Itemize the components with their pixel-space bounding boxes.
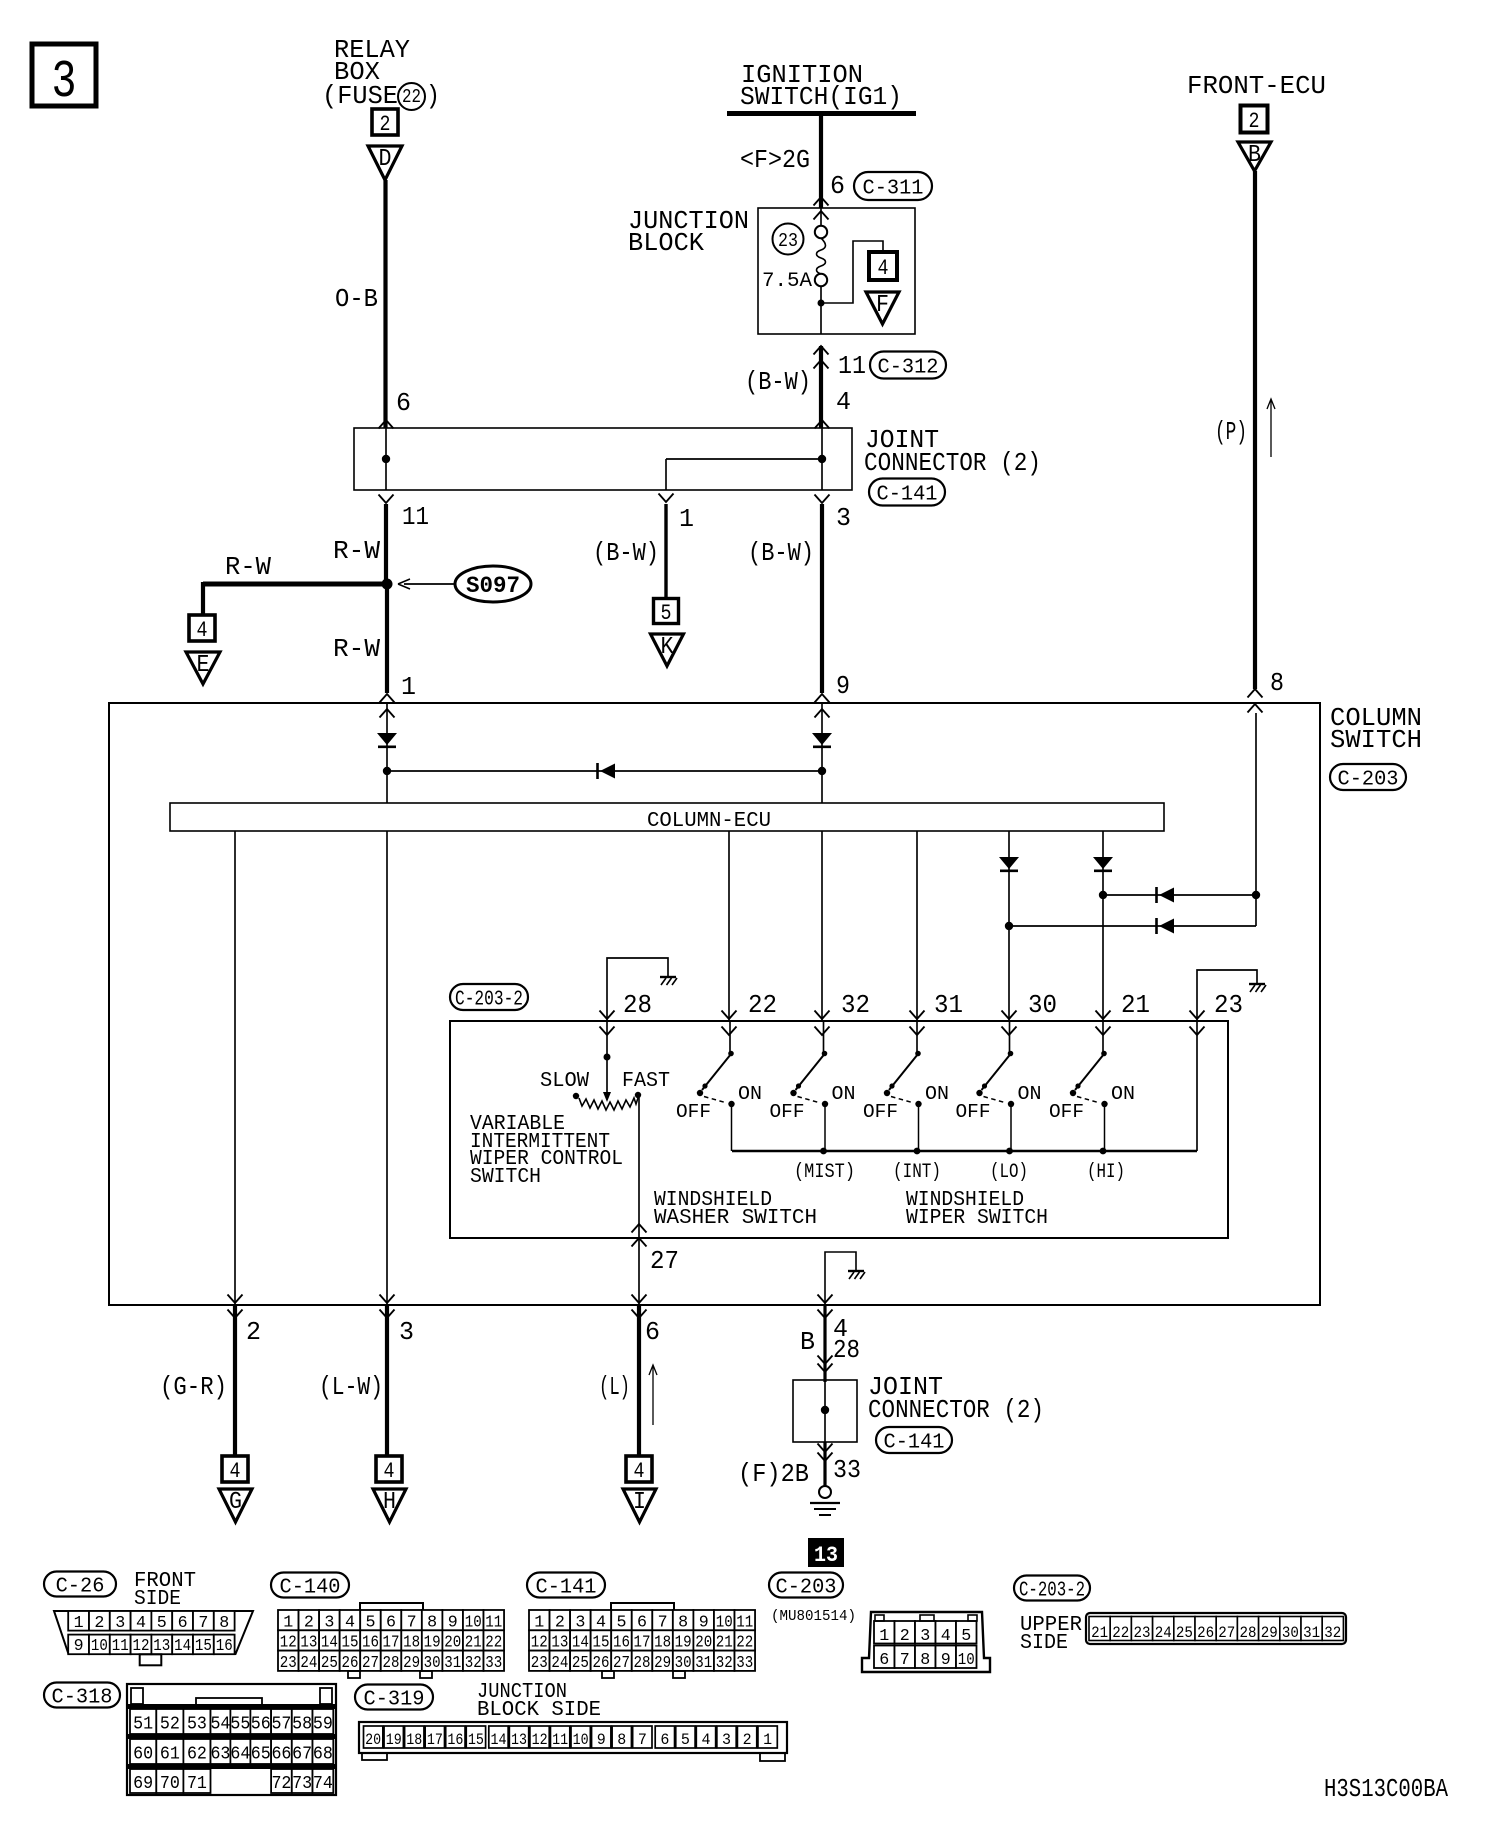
svg-text:16: 16: [216, 1637, 233, 1656]
svg-text:54: 54: [210, 1715, 230, 1735]
svg-text:33: 33: [736, 1654, 753, 1673]
svg-text:(F)2B: (F)2B: [738, 1460, 809, 1489]
svg-text:69: 69: [133, 1774, 153, 1794]
svg-text:53: 53: [187, 1715, 207, 1735]
svg-text:31: 31: [695, 1654, 712, 1673]
svg-text:G: G: [229, 1489, 242, 1516]
svg-text:22: 22: [402, 86, 421, 108]
svg-text:(G-R): (G-R): [160, 1373, 227, 1402]
svg-text:5: 5: [157, 1614, 167, 1633]
svg-text:4: 4: [197, 618, 208, 643]
svg-text:(FUSE: (FUSE: [322, 82, 398, 111]
svg-text:3: 3: [115, 1614, 125, 1633]
svg-text:2: 2: [246, 1318, 261, 1347]
svg-text:30: 30: [675, 1654, 692, 1673]
svg-text:60: 60: [133, 1745, 153, 1765]
svg-text:C-141: C-141: [877, 483, 938, 507]
svg-text:BLOCK SIDE: BLOCK SIDE: [477, 1699, 601, 1722]
svg-text:11: 11: [552, 1731, 568, 1749]
svg-text:R-W: R-W: [333, 537, 381, 566]
svg-text:COLUMN-ECU: COLUMN-ECU: [647, 809, 771, 833]
svg-text:<F>2G: <F>2G: [740, 146, 810, 175]
svg-text:57: 57: [271, 1715, 291, 1735]
svg-text:C-311: C-311: [863, 177, 924, 201]
svg-text:O-B: O-B: [335, 285, 378, 314]
svg-text:32: 32: [716, 1654, 733, 1673]
svg-text:WASHER SWITCH: WASHER SWITCH: [654, 1207, 817, 1230]
svg-text:33: 33: [485, 1654, 502, 1673]
svg-text:10: 10: [573, 1731, 589, 1749]
svg-text:SWITCH: SWITCH: [470, 1166, 541, 1189]
svg-text:1: 1: [763, 1731, 772, 1749]
svg-text:31: 31: [444, 1654, 461, 1673]
svg-text:C-319: C-319: [364, 1688, 425, 1712]
svg-text:25: 25: [1176, 1624, 1193, 1642]
svg-text:25: 25: [572, 1654, 589, 1673]
svg-text:3: 3: [836, 504, 851, 533]
svg-text:OFF: OFF: [863, 1101, 898, 1123]
svg-text:28: 28: [1240, 1624, 1257, 1642]
svg-text:16: 16: [447, 1731, 463, 1749]
svg-text:3: 3: [52, 52, 77, 112]
svg-text:59: 59: [313, 1715, 333, 1735]
svg-text:ON: ON: [832, 1083, 856, 1105]
svg-text:6: 6: [178, 1614, 188, 1633]
svg-text:28: 28: [383, 1654, 400, 1673]
svg-text:8: 8: [219, 1614, 229, 1633]
svg-text:2: 2: [94, 1614, 104, 1633]
svg-text:1: 1: [401, 673, 416, 702]
svg-text:30: 30: [1028, 991, 1057, 1020]
svg-text:14: 14: [490, 1731, 506, 1749]
svg-text:(LO): (LO): [990, 1161, 1028, 1184]
svg-text:(B-W): (B-W): [593, 539, 659, 568]
svg-text:5: 5: [961, 1627, 971, 1646]
svg-text:5: 5: [661, 601, 672, 626]
svg-text:29: 29: [1261, 1624, 1278, 1642]
svg-text:C-203-2: C-203-2: [1019, 1579, 1085, 1603]
svg-text:SIDE: SIDE: [1020, 1632, 1068, 1655]
svg-text:ON: ON: [1111, 1083, 1135, 1105]
svg-text:C-203: C-203: [776, 1576, 837, 1600]
svg-text:I: I: [633, 1489, 646, 1516]
svg-text:(L-W): (L-W): [319, 1373, 383, 1402]
svg-text:73: 73: [292, 1774, 312, 1794]
svg-text:55: 55: [230, 1715, 250, 1735]
svg-text:K: K: [661, 634, 675, 661]
svg-text:ON: ON: [925, 1083, 949, 1105]
svg-text:10: 10: [91, 1637, 108, 1656]
svg-text:28: 28: [623, 991, 652, 1020]
svg-text:51: 51: [133, 1715, 153, 1735]
svg-text:20: 20: [365, 1731, 381, 1749]
svg-text:24: 24: [300, 1654, 317, 1673]
svg-text:58: 58: [292, 1715, 312, 1735]
svg-text:32: 32: [841, 991, 870, 1020]
svg-text:26: 26: [1197, 1624, 1214, 1642]
svg-text:B: B: [800, 1328, 815, 1357]
svg-text:25: 25: [321, 1654, 338, 1673]
svg-text:ON: ON: [1018, 1083, 1042, 1105]
svg-text:WIPER SWITCH: WIPER SWITCH: [906, 1207, 1048, 1230]
svg-text:6: 6: [645, 1318, 660, 1347]
svg-text:30: 30: [424, 1654, 441, 1673]
svg-text:4: 4: [836, 388, 851, 417]
svg-text:13: 13: [153, 1637, 170, 1656]
svg-text:4: 4: [701, 1731, 710, 1749]
svg-text:4: 4: [384, 1459, 395, 1484]
svg-text:(MIST): (MIST): [794, 1161, 855, 1184]
svg-text:65: 65: [251, 1745, 271, 1765]
svg-text:(B-W): (B-W): [748, 539, 814, 568]
svg-text:61: 61: [160, 1745, 180, 1765]
svg-text:17: 17: [427, 1731, 443, 1749]
svg-text:10: 10: [958, 1651, 975, 1670]
svg-text:18: 18: [406, 1731, 422, 1749]
svg-text:): ): [426, 82, 440, 111]
svg-text:4: 4: [230, 1459, 241, 1484]
svg-text:21: 21: [1121, 991, 1150, 1020]
svg-text:14: 14: [174, 1637, 191, 1656]
svg-text:H3S13C00BA: H3S13C00BA: [1324, 1775, 1449, 1804]
svg-text:4: 4: [878, 256, 889, 281]
svg-text:9: 9: [74, 1637, 84, 1656]
svg-text:2: 2: [1249, 109, 1260, 134]
svg-text:4: 4: [941, 1627, 951, 1646]
svg-text:C-141: C-141: [536, 1576, 597, 1600]
svg-text:(MU801514): (MU801514): [771, 1608, 856, 1625]
svg-text:13: 13: [511, 1731, 527, 1749]
svg-text:52: 52: [160, 1715, 180, 1735]
svg-text:7.5A: 7.5A: [762, 270, 812, 293]
svg-text:27: 27: [613, 1654, 630, 1673]
svg-text:6: 6: [396, 389, 411, 418]
svg-text:3: 3: [399, 1318, 414, 1347]
svg-text:29: 29: [654, 1654, 671, 1673]
svg-text:11: 11: [402, 503, 429, 532]
svg-text:C-26: C-26: [56, 1575, 105, 1599]
svg-text:23: 23: [1134, 1624, 1151, 1642]
svg-text:2: 2: [743, 1731, 752, 1749]
svg-text:8: 8: [920, 1651, 930, 1670]
svg-text:C-140: C-140: [280, 1576, 341, 1600]
svg-text:OFF: OFF: [770, 1101, 805, 1123]
svg-text:3: 3: [920, 1627, 930, 1646]
svg-text:D: D: [379, 146, 392, 173]
svg-text:1: 1: [879, 1627, 889, 1646]
svg-text:CONNECTOR (2): CONNECTOR (2): [864, 449, 1041, 478]
svg-text:1: 1: [74, 1614, 84, 1633]
svg-text:OFF: OFF: [956, 1101, 991, 1123]
svg-text:62: 62: [187, 1745, 207, 1765]
svg-text:R-W: R-W: [225, 553, 272, 582]
svg-text:12: 12: [532, 1731, 548, 1749]
svg-text:67: 67: [292, 1745, 312, 1765]
svg-text:(L): (L): [599, 1373, 630, 1402]
svg-text:H: H: [383, 1489, 396, 1516]
svg-text:6: 6: [879, 1651, 889, 1670]
svg-text:24: 24: [1155, 1624, 1172, 1642]
svg-text:12: 12: [133, 1637, 150, 1656]
svg-text:S097: S097: [466, 573, 520, 599]
svg-text:(P): (P): [1215, 418, 1247, 447]
svg-text:21: 21: [1091, 1624, 1108, 1642]
svg-text:9: 9: [836, 672, 850, 701]
svg-text:23: 23: [1214, 991, 1243, 1020]
svg-text:SWITCH: SWITCH: [1330, 726, 1422, 755]
svg-text:71: 71: [187, 1774, 207, 1794]
svg-text:E: E: [197, 652, 210, 679]
svg-text:19: 19: [386, 1731, 402, 1749]
svg-text:15: 15: [468, 1731, 484, 1749]
svg-text:68: 68: [313, 1745, 333, 1765]
svg-text:ON: ON: [738, 1083, 762, 1105]
svg-text:23: 23: [531, 1654, 548, 1673]
svg-text:4: 4: [136, 1614, 146, 1633]
svg-text:SLOW: SLOW: [540, 1070, 589, 1093]
svg-text:1: 1: [679, 505, 694, 534]
svg-text:32: 32: [465, 1654, 482, 1673]
svg-text:7: 7: [900, 1651, 910, 1670]
svg-text:30: 30: [1282, 1624, 1299, 1642]
svg-text:56: 56: [251, 1715, 271, 1735]
svg-text:(HI): (HI): [1087, 1161, 1125, 1184]
svg-text:C-141: C-141: [884, 1431, 945, 1455]
svg-text:22: 22: [1112, 1624, 1129, 1642]
svg-text:CONNECTOR (2): CONNECTOR (2): [868, 1396, 1044, 1425]
svg-text:C-203-2: C-203-2: [455, 988, 523, 1012]
svg-text:6: 6: [830, 172, 845, 201]
svg-text:C-203: C-203: [1338, 768, 1399, 792]
svg-text:31: 31: [934, 991, 963, 1020]
svg-text:32: 32: [1324, 1624, 1341, 1642]
svg-text:OFF: OFF: [1049, 1101, 1084, 1123]
svg-text:(INT): (INT): [893, 1161, 941, 1184]
svg-text:23: 23: [280, 1654, 297, 1673]
svg-text:29: 29: [403, 1654, 420, 1673]
svg-text:31: 31: [1303, 1624, 1320, 1642]
svg-text:F: F: [876, 292, 889, 319]
svg-text:72: 72: [271, 1774, 291, 1794]
svg-text:4: 4: [634, 1459, 645, 1484]
svg-text:9: 9: [941, 1651, 951, 1670]
svg-text:15: 15: [195, 1637, 212, 1656]
svg-text:FRONT-ECU: FRONT-ECU: [1187, 72, 1326, 101]
svg-text:8: 8: [1270, 669, 1284, 698]
svg-text:2: 2: [900, 1627, 910, 1646]
svg-text:C-318: C-318: [52, 1686, 113, 1710]
svg-text:11: 11: [838, 352, 866, 381]
svg-text:27: 27: [650, 1247, 679, 1276]
svg-text:22: 22: [748, 991, 777, 1020]
svg-text:3: 3: [722, 1731, 731, 1749]
svg-text:33: 33: [833, 1456, 861, 1485]
svg-text:(B-W): (B-W): [745, 368, 811, 397]
svg-text:11: 11: [112, 1637, 129, 1656]
svg-text:5: 5: [681, 1731, 690, 1749]
svg-text:26: 26: [341, 1654, 358, 1673]
svg-text:B: B: [1248, 142, 1261, 169]
svg-text:74: 74: [313, 1774, 333, 1794]
svg-text:C-312: C-312: [878, 356, 939, 380]
svg-text:R-W: R-W: [333, 635, 381, 664]
svg-text:2: 2: [380, 112, 391, 137]
svg-text:OFF: OFF: [676, 1101, 711, 1123]
svg-text:28: 28: [634, 1654, 651, 1673]
svg-text:7: 7: [198, 1614, 208, 1633]
svg-text:SIDE: SIDE: [134, 1588, 181, 1611]
svg-text:23: 23: [778, 230, 798, 252]
svg-text:9: 9: [597, 1731, 606, 1749]
svg-text:64: 64: [230, 1745, 250, 1765]
svg-text:63: 63: [210, 1745, 230, 1765]
svg-text:FAST: FAST: [622, 1070, 670, 1093]
svg-text:27: 27: [362, 1654, 379, 1673]
svg-text:26: 26: [592, 1654, 609, 1673]
svg-text:24: 24: [551, 1654, 568, 1673]
svg-text:66: 66: [271, 1745, 291, 1765]
svg-text:70: 70: [160, 1774, 180, 1794]
svg-text:BLOCK: BLOCK: [628, 229, 705, 258]
svg-text:13: 13: [814, 1543, 838, 1568]
svg-text:7: 7: [638, 1731, 647, 1749]
svg-text:28: 28: [833, 1336, 860, 1365]
svg-text:27: 27: [1218, 1624, 1235, 1642]
svg-text:SWITCH(IG1): SWITCH(IG1): [740, 83, 902, 112]
svg-text:8: 8: [617, 1731, 626, 1749]
svg-text:6: 6: [660, 1731, 669, 1749]
